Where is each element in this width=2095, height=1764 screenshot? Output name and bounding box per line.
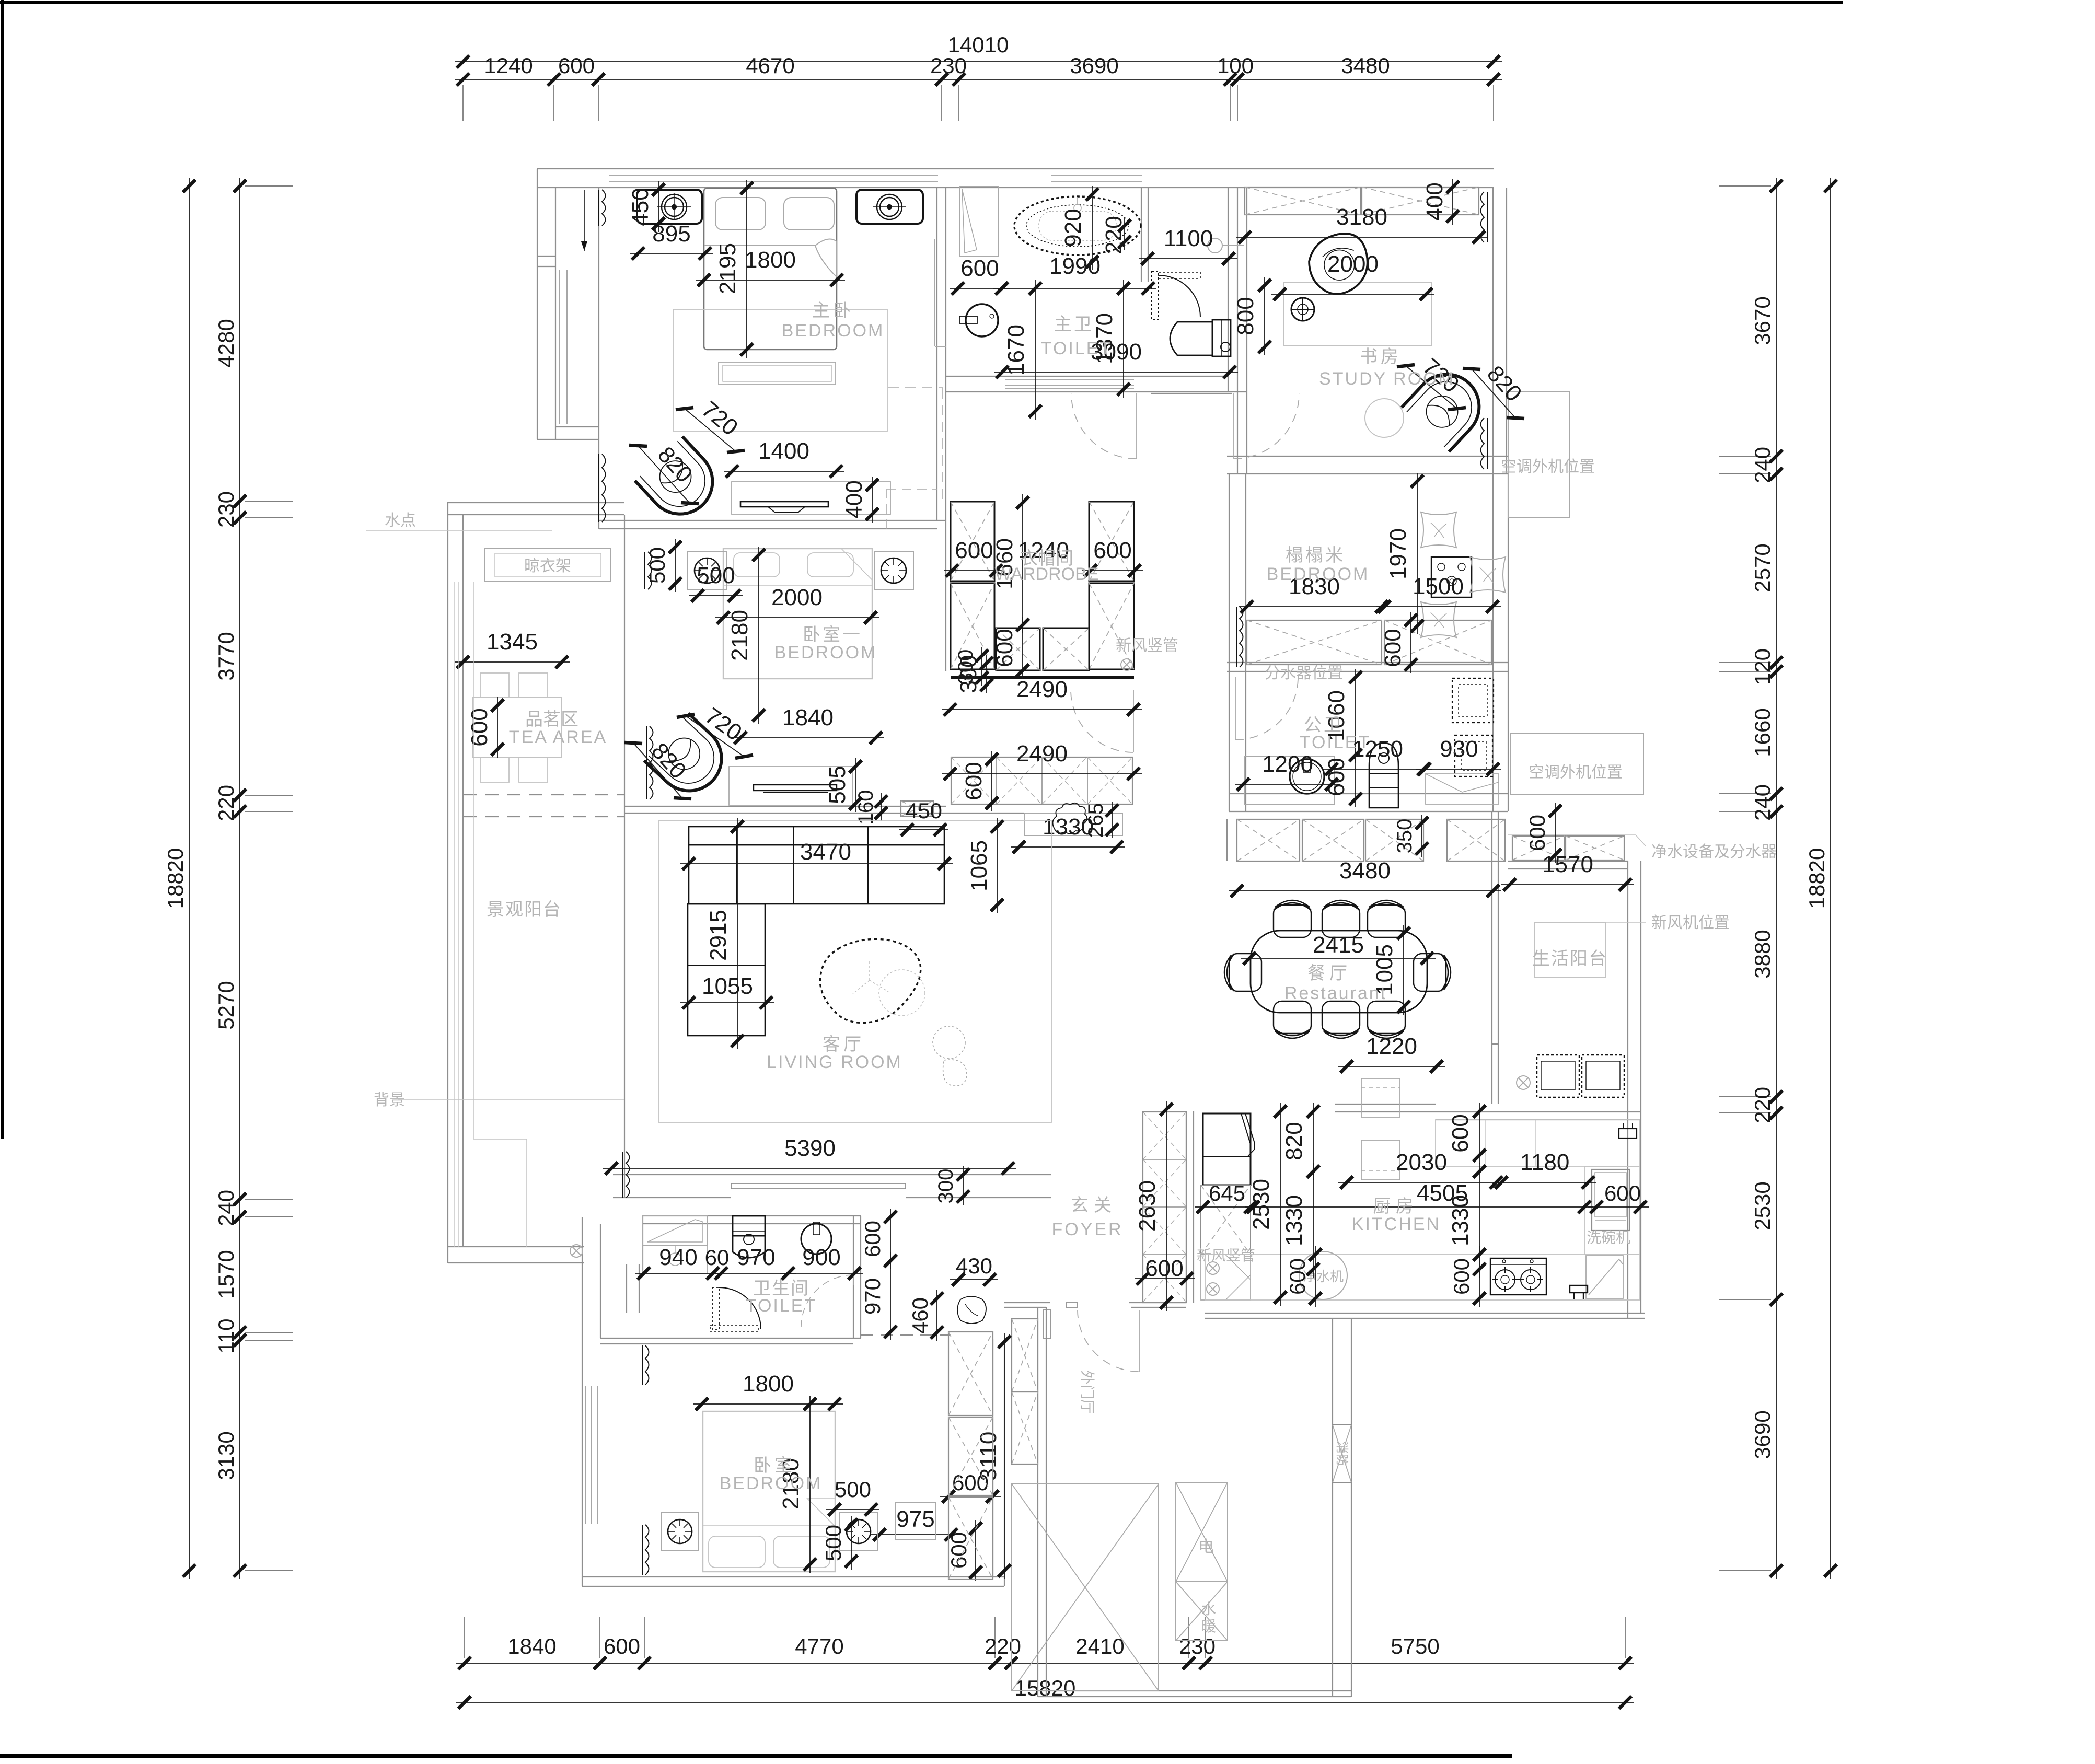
tv console master: [719, 362, 836, 385]
svg-text:空调外机位置: 空调外机位置: [1529, 764, 1623, 781]
dim 500v lower: [851, 1516, 852, 1570]
svg-text:1330: 1330: [1281, 1195, 1307, 1246]
svg-text:生活阳台: 生活阳台: [1532, 949, 1607, 969]
pillow lower 1: [709, 1536, 765, 1568]
svg-text:600: 600: [961, 762, 987, 800]
dashed corridor boundary v: [942, 388, 943, 501]
fan bedroom1 right: [881, 558, 906, 583]
svg-text:4770: 4770: [795, 1634, 843, 1658]
svg-text:1400: 1400: [758, 438, 809, 464]
closet study right: [1362, 187, 1479, 215]
wall study left: [1237, 188, 1238, 474]
office chair study: [1303, 228, 1375, 300]
dishwasher: [1592, 1169, 1629, 1231]
wall lower bedroom top: [600, 1338, 861, 1339]
curtain tatami left: [1240, 607, 1243, 667]
basin public toilet: [1290, 759, 1324, 794]
cushion tatami right: [1470, 557, 1506, 593]
svg-text:220: 220: [1750, 1087, 1775, 1123]
svg-text:1220: 1220: [1366, 1034, 1417, 1059]
dim 2000 bedroom1: [715, 617, 879, 618]
svg-text:2415: 2415: [1313, 932, 1364, 958]
svg-text:820: 820: [1281, 1122, 1307, 1160]
dim 920 tub: [1092, 186, 1093, 270]
dim 1100: [1139, 258, 1237, 259]
dim 2530 kitchen: [1280, 1103, 1281, 1306]
curtain arrow master top: [584, 190, 585, 251]
svg-text:5750: 5750: [1391, 1634, 1439, 1658]
wall balcony left: [447, 503, 448, 1263]
basin lower toilet: [801, 1224, 831, 1254]
nightstand left master: [637, 190, 702, 224]
basin master: [966, 304, 998, 336]
svg-text:230: 230: [930, 53, 967, 78]
wall foyer-kitchen: [1186, 1111, 1187, 1303]
door master toilet: [1152, 272, 1159, 320]
svg-text:BEDROOM: BEDROOM: [1267, 564, 1370, 584]
svg-text:160: 160: [854, 790, 877, 825]
svg-text:18820: 18820: [1804, 848, 1829, 909]
dim 1065 sofa: [997, 818, 998, 913]
dim 1830: [1239, 606, 1390, 607]
dining chair top 1: [1274, 900, 1311, 937]
nightstand lower right: [840, 1513, 877, 1550]
svg-text:暖: 暖: [1201, 1618, 1216, 1634]
dim 300 living: [963, 1166, 964, 1205]
armchair master: [635, 436, 726, 527]
freshair unit: [1534, 923, 1605, 977]
pillow bedroom1 right: [807, 553, 853, 577]
svg-text:600: 600: [955, 538, 993, 563]
dim 645 fridge: [1195, 1206, 1259, 1208]
console table corridor: [1024, 813, 1122, 835]
wall master toilet bottom: [946, 376, 1228, 377]
svg-text:2630: 2630: [1135, 1180, 1160, 1232]
dim 800 study: [1264, 277, 1265, 355]
dim 600 ltoilet: [890, 1209, 891, 1269]
svg-text:1990: 1990: [1049, 253, 1101, 279]
wall lower bedroom right: [992, 1339, 993, 1577]
svg-text:STUDY ROOM: STUDY ROOM: [1319, 369, 1455, 389]
svg-text:主卧: 主卧: [812, 301, 854, 321]
curtain master bay top: [602, 190, 606, 226]
dim 600 kitchen top: [1479, 1103, 1480, 1164]
dim 895: [630, 253, 713, 254]
closet WIC right bottom: [1089, 583, 1134, 669]
dim chain left segments: [239, 178, 240, 1579]
svg-text:300: 300: [956, 655, 981, 693]
svg-text:1800: 1800: [743, 1371, 794, 1397]
dashed corridor lower: [861, 1334, 951, 1336]
cabinet diningtop 2: [1302, 819, 1364, 861]
svg-text:榻榻米: 榻榻米: [1286, 546, 1345, 565]
svg-text:BEDROOM: BEDROOM: [782, 321, 885, 341]
drying rack: [484, 549, 610, 582]
dim 160 sofa: [881, 793, 882, 821]
basket entry: [957, 1296, 986, 1324]
svg-text:600: 600: [1380, 629, 1406, 667]
svg-text:Restaurant: Restaurant: [1284, 983, 1387, 1003]
tvboard bedroom1: [729, 767, 852, 805]
svg-text:2490: 2490: [1016, 741, 1068, 767]
dim 1250: [1323, 769, 1432, 770]
svg-text:1840: 1840: [507, 1634, 556, 1658]
bed bedroom1: [723, 549, 872, 679]
svg-text:1330: 1330: [1043, 814, 1094, 840]
dim chain left overall 18820: [189, 178, 190, 1579]
washer dryer 1: [1537, 1055, 1579, 1097]
svg-text:600: 600: [558, 53, 595, 78]
cabinet diningtop 1: [1237, 819, 1300, 861]
stool lower bedroom: [895, 1502, 935, 1540]
rug master: [673, 309, 887, 431]
dim 1055 sofa: [680, 1002, 774, 1003]
svg-text:2195: 2195: [715, 243, 740, 294]
dim chain right overall 18820: [1830, 178, 1831, 1579]
dim 975 stool: [871, 1534, 959, 1535]
wall top glazing master bedroom: [609, 175, 938, 176]
counter kitchen top: [1436, 1120, 1640, 1166]
blanket bedroom1: [723, 585, 872, 586]
side table study: [1365, 399, 1404, 437]
leader 新风机位置: [1570, 922, 1646, 923]
svg-text:940: 940: [659, 1245, 697, 1270]
svg-text:3180: 3180: [1336, 204, 1387, 230]
wall top glazing master toilet: [1051, 175, 1142, 176]
dim 1330 kitchen R: [1479, 1163, 1480, 1278]
door arc public toilet: [1235, 677, 1236, 740]
svg-text:1100: 1100: [1164, 226, 1213, 251]
dim chain top segments: [455, 79, 1502, 80]
dim 400 studycloset: [1452, 179, 1453, 225]
wall tatami-toilet left: [1229, 474, 1230, 811]
svg-text:3880: 3880: [1750, 930, 1775, 978]
svg-text:220: 220: [1101, 216, 1127, 254]
dining chair bottom 1: [1274, 1001, 1311, 1038]
wc public toilet: [1369, 743, 1398, 808]
dim 3480 dining: [1229, 890, 1501, 891]
wc lower toilet: [733, 1216, 765, 1236]
svg-text:1240: 1240: [484, 53, 533, 78]
dim 500 bedroom1 left: [675, 539, 676, 592]
dim 1800 bed: [696, 280, 845, 281]
svg-text:800: 800: [1233, 297, 1258, 335]
dashed tea area boundary: [463, 794, 624, 795]
dim 1005 dining: [1403, 925, 1404, 1015]
svg-text:晾衣架: 晾衣架: [524, 558, 571, 575]
svg-text:900: 900: [802, 1245, 840, 1270]
sheet top border: [0, 1, 1843, 4]
curtain bedroom1: [648, 552, 652, 589]
svg-text:300: 300: [934, 1169, 957, 1204]
sheet left border: [1, 0, 4, 1139]
dining chair bottom 3: [1368, 1001, 1405, 1038]
wall corridor stub: [1151, 393, 1232, 394]
svg-text:品茗区: 品茗区: [525, 710, 578, 729]
svg-text:920: 920: [1060, 208, 1086, 247]
svg-text:1970: 1970: [1385, 528, 1411, 579]
dim chain bottom overall 15820: [456, 1702, 1634, 1703]
svg-text:空调外机位置: 空调外机位置: [1501, 458, 1595, 475]
shaft elec: [1176, 1482, 1228, 1582]
wall balcony inner boundary: [624, 515, 625, 1198]
svg-text:1570: 1570: [214, 1250, 238, 1298]
svg-text:1065: 1065: [966, 840, 992, 891]
dim 505: [855, 758, 856, 812]
dim 3470 sofa: [680, 863, 953, 864]
dim 1570: [1501, 884, 1634, 885]
dim 900 ltoilet: [780, 1273, 863, 1274]
dim 1840 bedroom1: [732, 737, 884, 738]
cushion tatami bottom: [1421, 602, 1456, 637]
svg-text:645: 645: [1209, 1181, 1245, 1205]
tv set bedroom1wall: [740, 502, 828, 507]
svg-text:2915: 2915: [705, 910, 731, 961]
dim 600 foyer: [1135, 1278, 1195, 1279]
stove: [1490, 1258, 1546, 1295]
svg-text:3480: 3480: [1339, 858, 1391, 884]
dim 1800 lower: [693, 1403, 843, 1405]
dim 600 lifebalcony: [1555, 803, 1556, 863]
cabinet corridor row: [951, 757, 1132, 804]
svg-text:2030: 2030: [1396, 1150, 1447, 1175]
armchair bedroom1: [644, 713, 735, 804]
desk study: [1284, 283, 1431, 345]
wall tatami bottom: [1227, 662, 1508, 663]
svg-text:书房: 书房: [1360, 347, 1402, 367]
wall master toilet partition: [1141, 188, 1142, 282]
wall kitchen right: [1627, 861, 1628, 1318]
svg-text:水: 水: [1201, 1601, 1216, 1617]
dim 820 armchair master: [638, 446, 690, 503]
svg-text:600: 600: [1449, 1258, 1474, 1295]
cabinet fridge col: [1201, 1185, 1251, 1255]
otimes WIC: [1121, 659, 1132, 670]
pillow lower 2: [773, 1536, 830, 1568]
wall lower toilet right: [853, 1216, 854, 1338]
curtain living balcony: [626, 1152, 630, 1198]
svg-text:600: 600: [992, 629, 1017, 667]
wall master bedroom bottom: [599, 520, 946, 521]
tea chair 1: [480, 673, 509, 698]
svg-text:2530: 2530: [1750, 1181, 1775, 1230]
svg-text:230: 230: [214, 491, 238, 528]
svg-text:TOILET: TOILET: [1300, 733, 1371, 752]
svg-text:TEA AREA: TEA AREA: [509, 727, 607, 747]
svg-text:1200: 1200: [1262, 751, 1313, 777]
dim 400 tvboard: [872, 477, 873, 523]
dim 600 WIC left: [944, 570, 1004, 571]
dim 500 lower: [826, 1509, 879, 1510]
tea chair 2: [519, 673, 548, 698]
sofa back: [689, 827, 944, 845]
wall column balcony-toilet: [626, 1264, 627, 1313]
svg-text:BEDROOM: BEDROOM: [720, 1473, 823, 1493]
wall lower toilet top: [643, 1215, 861, 1216]
svg-text:5270: 5270: [214, 981, 238, 1029]
svg-text:FOYER: FOYER: [1051, 1220, 1123, 1239]
svg-text:卧室: 卧室: [754, 1456, 795, 1476]
svg-text:LIVING ROOM: LIVING ROOM: [767, 1052, 902, 1072]
dim 500 bedroom1: [689, 595, 743, 596]
washerbox lower toilet: [643, 1216, 707, 1245]
door arc closet: [1133, 690, 1134, 752]
wall life balcony top: [1508, 861, 1628, 862]
svg-text:水点: 水点: [385, 512, 416, 529]
dim 2490 corridor lower: [942, 773, 1142, 774]
svg-text:930: 930: [1440, 736, 1478, 762]
nightstand bedroom1 right: [874, 552, 913, 589]
svg-text:TOILET: TOILET: [1041, 339, 1112, 358]
floordrain kitchen: [1570, 1285, 1588, 1293]
dim 1200: [1235, 784, 1340, 785]
otimes kitchen2: [1207, 1283, 1219, 1295]
shaft fire: [1333, 1425, 1351, 1482]
svg-text:350: 350: [1393, 819, 1416, 854]
dim 600 dishwasher: [1588, 1206, 1649, 1208]
stool study: [1291, 298, 1314, 321]
shower head 1: [1452, 678, 1494, 723]
wall foyer bottom: [1004, 1302, 1050, 1303]
cushion tatami top: [1421, 512, 1456, 548]
svg-text:18820: 18820: [163, 848, 188, 909]
curtain study right bottom: [1481, 418, 1485, 469]
dashed master bedroom door: [887, 489, 937, 490]
dim 720 armchair study: [1406, 366, 1457, 409]
svg-text:600: 600: [860, 1221, 885, 1257]
svg-text:60: 60: [705, 1245, 730, 1270]
dim 600 cab2: [975, 1520, 976, 1581]
curtain lower bedroom bottom: [645, 1525, 649, 1575]
svg-text:KITCHEN: KITCHEN: [1352, 1214, 1441, 1234]
tea chair 4: [519, 758, 548, 782]
bed master: [704, 188, 837, 350]
svg-text:975: 975: [896, 1506, 934, 1532]
counter kitchen bottom: [1205, 1255, 1640, 1300]
svg-text:5390: 5390: [784, 1135, 836, 1161]
svg-text:450: 450: [906, 798, 942, 823]
svg-text:400: 400: [841, 480, 867, 518]
dim 600 kitchenbottom R: [1479, 1246, 1480, 1307]
leader 水点: [366, 530, 552, 531]
otimes kitchen1: [1207, 1262, 1219, 1274]
svg-text:450: 450: [628, 188, 653, 226]
svg-text:1345: 1345: [487, 629, 538, 655]
cabinet small corridor: [901, 801, 933, 816]
svg-text:500: 500: [697, 563, 735, 588]
dim 350 diningcab: [1421, 815, 1422, 857]
dim 1500: [1376, 606, 1501, 607]
svg-text:3670: 3670: [1750, 296, 1775, 345]
svg-text:景观阳台: 景观阳台: [487, 900, 562, 920]
dim 2490 corridor upper: [942, 709, 1142, 710]
foyer pillar cabinet: [1012, 1319, 1038, 1392]
wall outer hall left: [1037, 1307, 1038, 1697]
entry door arc: [1139, 1310, 1140, 1372]
dim 600 tea: [497, 697, 498, 758]
closet WIC left bottom: [951, 583, 994, 669]
dim chain top overall 14010: [455, 61, 1502, 62]
dim 1330 console: [1011, 846, 1125, 848]
wall kitchen top: [1335, 1104, 1436, 1105]
waterpurifier: [1299, 1251, 1347, 1299]
dim 720 armchair master: [685, 409, 736, 451]
leader 背景: [398, 1099, 624, 1100]
dining chair right: [1414, 954, 1451, 991]
dim 1060: [1355, 669, 1356, 763]
door arc master suite: [1136, 393, 1137, 459]
island kitchen 1: [1361, 1078, 1400, 1117]
wall study bottom: [1227, 456, 1508, 457]
towel hook: [1208, 238, 1222, 253]
dim 265 console: [1112, 802, 1113, 838]
svg-text:1055: 1055: [702, 973, 753, 999]
svg-text:2410: 2410: [1075, 1634, 1124, 1658]
dim 600 tatamicloset: [1410, 612, 1411, 673]
dim 3180: [1236, 237, 1487, 238]
nightstand bedroom1 left: [688, 552, 727, 589]
svg-text:3690: 3690: [1070, 53, 1118, 78]
svg-text:餐厅: 餐厅: [1307, 964, 1351, 983]
svg-text:3480: 3480: [1341, 53, 1390, 78]
svg-text:4505: 4505: [1417, 1180, 1468, 1206]
svg-text:2490: 2490: [1016, 677, 1068, 702]
curtain bedroom1 low: [650, 726, 653, 799]
nightstand right master: [856, 190, 923, 224]
svg-text:1570: 1570: [1542, 852, 1593, 877]
window living room slider: [731, 1183, 906, 1189]
dining table: [1251, 931, 1427, 1013]
dim 2915 sofa: [737, 818, 738, 1049]
svg-text:500: 500: [821, 1525, 846, 1561]
svg-text:1840: 1840: [782, 705, 834, 730]
balcony window glazing: [454, 582, 455, 1247]
tv board bedroom1wall: [732, 482, 890, 514]
svg-text:1800: 1800: [745, 247, 796, 273]
dim 1970: [1417, 473, 1418, 634]
living floor border: [658, 821, 1051, 1122]
nightstand lower left: [661, 1513, 699, 1550]
dim 430 entry: [950, 1279, 998, 1280]
svg-text:净水设备及分水器: 净水设备及分水器: [1651, 843, 1777, 861]
wall tatami right: [1508, 474, 1509, 811]
svg-text:消防: 消防: [1335, 1441, 1349, 1466]
wall dining top cabinetrow edge: [1226, 819, 1228, 861]
wall outer hall bottom: [1038, 1690, 1351, 1691]
dim 720 armchair bed1: [686, 716, 744, 757]
wall bedroom1 bottom: [624, 806, 946, 807]
tea chair 3: [480, 758, 509, 782]
svg-text:230: 230: [1179, 1634, 1216, 1658]
dim 1660 WIC: [1022, 494, 1023, 633]
tea table: [473, 698, 562, 758]
pillow master left: [715, 198, 766, 230]
coffee table dotted: [820, 939, 920, 1023]
svg-text:600: 600: [1093, 538, 1131, 563]
svg-text:600: 600: [1145, 1256, 1183, 1281]
closet tatami right: [1384, 620, 1491, 665]
AC platform toilet: [1511, 733, 1643, 794]
blanket master: [704, 245, 815, 246]
svg-text:600: 600: [1525, 815, 1549, 851]
sink corner kitchen: [1201, 1255, 1251, 1300]
svg-text:1660: 1660: [1750, 708, 1775, 757]
svg-text:100: 100: [1217, 53, 1254, 78]
svg-text:110: 110: [214, 1319, 238, 1354]
svg-text:玄关: 玄关: [1071, 1196, 1117, 1215]
tv bedroom1: [754, 785, 837, 791]
dim 450 sofa: [899, 829, 948, 830]
